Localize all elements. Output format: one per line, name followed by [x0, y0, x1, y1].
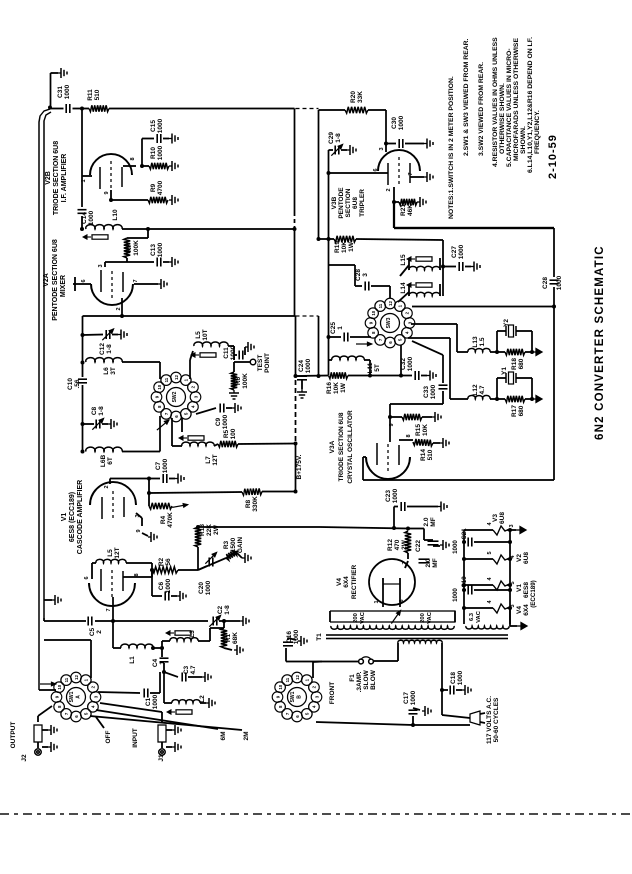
svg-text:V2A: V2A: [43, 273, 50, 287]
svg-text:L5: L5: [107, 549, 114, 557]
svg-text:50-60 CYCLES: 50-60 CYCLES: [493, 697, 500, 742]
svg-text:V2: V2: [516, 554, 523, 562]
svg-text:C21: C21: [461, 528, 468, 540]
svg-text:R9: R9: [150, 183, 157, 192]
heater V4 6X4: [464, 607, 493, 609]
svg-text:V4: V4: [516, 606, 523, 614]
svg-text:C15: C15: [150, 120, 157, 132]
wire SW3 to right bus: [412, 306, 554, 308]
wire C2 line: [113, 620, 208, 622]
svg-text:RECTIFIER: RECTIFIER: [351, 565, 358, 600]
svg-text:C10: C10: [67, 378, 74, 390]
svg-text:8: 8: [406, 434, 412, 437]
svg-text:C3: C3: [183, 665, 190, 674]
capacitor C8 1-8 variable: [83, 423, 95, 425]
svg-text:100K: 100K: [133, 240, 140, 256]
svg-text:V3: V3: [492, 514, 499, 522]
capacitor C24 1000: [297, 375, 307, 377]
svg-text:1000: 1000: [392, 488, 399, 503]
wire switch feed upper: [44, 639, 91, 641]
wire to 2M: [90, 716, 242, 730]
wire (left bus outer): [39, 109, 50, 690]
resistor R1 68K: [221, 628, 227, 648]
wire L6 to SW2: [122, 361, 160, 363]
tube V2A mixer: [91, 284, 133, 305]
wire to pin 3: [385, 110, 387, 144]
svg-text:680: 680: [518, 405, 525, 416]
coil L7 12T with slug: [182, 442, 214, 446]
coil L14 with slug: [408, 284, 410, 296]
wire SW2 to L7: [171, 418, 173, 440]
heater V1 6ES8: [464, 584, 493, 586]
svg-text:2W: 2W: [213, 524, 220, 535]
svg-text:10: 10: [57, 684, 62, 689]
svg-text:7: 7: [133, 279, 139, 282]
tube V1 upper half: [90, 482, 136, 505]
ground arrow Y1: [532, 398, 536, 400]
wire left bus to switch: [39, 689, 56, 691]
capacitor C4 1: [161, 648, 163, 657]
svg-text:10T: 10T: [202, 329, 209, 340]
resistor R7 100K: [147, 229, 149, 238]
svg-text:1: 1: [159, 661, 166, 665]
capacitor C23 1000: [393, 507, 395, 529]
svg-text:OFF: OFF: [105, 730, 112, 743]
wire top bus right segment: [318, 110, 320, 239]
svg-text:510: 510: [427, 449, 434, 460]
svg-text:33K: 33K: [357, 91, 364, 103]
svg-text:1000: 1000: [230, 345, 237, 360]
capacitor C32 1000: [370, 375, 412, 377]
svg-text:R4: R4: [160, 515, 167, 524]
svg-text:3: 3: [362, 273, 369, 277]
svg-text:11: 11: [164, 377, 169, 382]
fuse F1: [369, 659, 374, 664]
svg-text:B+175V.: B+175V.: [296, 454, 303, 479]
svg-text:R19: R19: [334, 241, 341, 253]
svg-text:I.F. AMPLIFIER: I.F. AMPLIFIER: [61, 154, 68, 203]
svg-text:C13: C13: [150, 244, 157, 256]
capacitor C10 .56 series in left line: [82, 363, 84, 378]
svg-text:1000: 1000: [410, 690, 417, 705]
svg-text:4700: 4700: [157, 180, 164, 195]
svg-text:VAC: VAC: [427, 611, 433, 624]
node: [80, 107, 84, 111]
wire oscillator box bottom: [363, 479, 554, 481]
resistor R14 510: [399, 439, 413, 441]
svg-text:R10: R10: [150, 147, 157, 159]
svg-text:1000: 1000: [222, 414, 229, 429]
svg-text:C19: C19: [461, 576, 468, 588]
resistor R20 33K: [345, 107, 368, 113]
rotary switch SW3: [381, 314, 400, 333]
coil L6 3T: [82, 335, 84, 363]
svg-text:1000: 1000: [407, 356, 414, 371]
transformer 6.3VAC winding: [463, 607, 465, 624]
coil L2 with slug: [163, 672, 165, 703]
svg-text:C22: C22: [415, 540, 422, 552]
svg-text:R12: R12: [387, 539, 394, 551]
svg-text:2: 2: [386, 188, 392, 191]
svg-text:R2: R2: [158, 557, 165, 566]
svg-text:10K: 10K: [341, 241, 348, 253]
svg-text:2: 2: [96, 630, 103, 634]
svg-text:1W: 1W: [340, 382, 347, 393]
wire down to L15/C27: [442, 240, 444, 266]
svg-text:C16: C16: [286, 631, 293, 643]
svg-text:100: 100: [230, 428, 237, 439]
capacitor C33 1000 series: [412, 341, 443, 355]
svg-text:1000: 1000: [458, 244, 465, 259]
svg-text:SLOW: SLOW: [363, 669, 370, 689]
rotary switch SW1B: [288, 688, 307, 707]
chassis dashed line: [0, 813, 632, 815]
heater V2 6U8: [464, 558, 493, 560]
svg-text:R3: R3: [223, 540, 230, 549]
svg-text:C33: C33: [423, 386, 430, 398]
wire pin 6: [327, 171, 331, 175]
svg-text:10: 10: [157, 384, 162, 389]
wire pin 6: [73, 283, 91, 285]
svg-text:J2: J2: [21, 754, 28, 762]
ground arrow 6.3 winding: [510, 625, 517, 627]
svg-text:22K: 22K: [206, 524, 213, 536]
ground (antenna shield): [51, 72, 59, 74]
capacitor C2 1-8 variable: [212, 617, 214, 626]
transformer HV winding bumps: [331, 626, 454, 629]
svg-text:6T: 6T: [107, 457, 114, 465]
svg-text:C14: C14: [81, 212, 88, 224]
svg-text:L10: L10: [112, 209, 119, 221]
svg-text:5T: 5T: [374, 364, 381, 372]
capacitor C9 1000: [196, 408, 216, 414]
svg-text:1000: 1000: [293, 629, 300, 644]
svg-text:12: 12: [388, 301, 393, 306]
svg-text:56: 56: [165, 558, 172, 566]
svg-text:R7: R7: [126, 243, 133, 252]
test point terminal: [234, 361, 250, 363]
svg-text:C12: C12: [99, 343, 106, 355]
crystal Y2: [496, 331, 498, 352]
svg-text:6: 6: [84, 576, 90, 579]
svg-text:12T: 12T: [114, 547, 121, 558]
svg-text:C8: C8: [91, 406, 98, 415]
capacitor C11 1000: [234, 354, 237, 356]
svg-text:C17: C17: [403, 692, 410, 704]
svg-text:1.5: 1.5: [479, 337, 486, 346]
resistor R4 470K with arrow: [148, 493, 150, 506]
svg-text:5.CAPACITANCE VALUES IN MICRO-: 5.CAPACITANCE VALUES IN MICRO-: [506, 48, 513, 167]
wire pin 8 to R2 node: [123, 576, 152, 578]
svg-text:L6: L6: [103, 367, 110, 375]
capacitor C17 1000: [412, 716, 414, 725]
wire thick output line: [393, 202, 395, 228]
svg-text:R16: R16: [326, 382, 333, 394]
svg-text:2.SW1 & SW3 VIEWED FROM REAR.: 2.SW1 & SW3 VIEWED FROM REAR.: [463, 38, 470, 156]
svg-text:1000: 1000: [305, 358, 312, 373]
transformer core lines: [326, 634, 508, 636]
node: [80, 227, 84, 231]
wire to plug: [441, 690, 443, 715]
heater V3 6U8: [464, 529, 493, 531]
ground arrow Y2: [532, 351, 536, 353]
svg-text:L11: L11: [367, 362, 374, 373]
svg-text:C24: C24: [298, 360, 305, 372]
svg-text:L6B: L6B: [100, 455, 107, 468]
wire SW3 to Y2 section: [411, 323, 457, 325]
wire: [82, 424, 84, 452]
resistor R2 56: [151, 563, 153, 570]
capacitor C28 1000 series: [550, 279, 559, 281]
heater rail right: [509, 530, 511, 626]
svg-text:.3AMP.: .3AMP.: [356, 671, 363, 692]
svg-text:GAIN: GAIN: [237, 537, 244, 554]
svg-text:10: 10: [278, 684, 283, 689]
svg-text:1000: 1000: [398, 115, 405, 130]
svg-text:200: 200: [420, 613, 426, 623]
svg-text:L14: L14: [400, 282, 407, 294]
svg-text:5: 5: [487, 551, 493, 554]
wire SW3 to Y1 section: [408, 337, 450, 339]
svg-text:L13: L13: [472, 336, 479, 348]
svg-text:3: 3: [379, 147, 385, 150]
svg-text:SW1: SW1: [69, 691, 75, 702]
svg-text:Y2: Y2: [503, 319, 510, 327]
resistor R13 22K 2W: [195, 527, 201, 547]
svg-text:R17: R17: [511, 405, 518, 417]
capacitor C13 1000: [156, 258, 158, 267]
svg-text:1000: 1000: [152, 694, 159, 709]
svg-text:V4: V4: [336, 578, 343, 586]
resistor R12 470 2W: [405, 531, 411, 553]
wire pin 2 to bus: [121, 298, 123, 316]
svg-text:L5: L5: [195, 331, 202, 339]
svg-text:CASCODE AMPLIFIER: CASCODE AMPLIFIER: [77, 480, 84, 554]
wire to grid pin 9: [390, 403, 443, 405]
svg-text:TRIPLER: TRIPLER: [359, 189, 366, 217]
svg-text:L2: L2: [199, 695, 206, 703]
svg-text:6: 6: [373, 168, 379, 171]
svg-text:L1: L1: [129, 656, 136, 664]
svg-text:R1: R1: [225, 633, 232, 642]
transformer T1 HV secondary box: [330, 611, 455, 622]
svg-text:6M: 6M: [220, 731, 227, 740]
svg-text:1000: 1000: [430, 384, 437, 399]
svg-text:46K: 46K: [407, 204, 414, 216]
wire right bus: [553, 228, 555, 277]
svg-text:100K: 100K: [242, 373, 249, 389]
svg-text:R21: R21: [400, 204, 407, 216]
svg-text:R14: R14: [420, 449, 427, 461]
capacitor C7 1000: [147, 477, 151, 481]
svg-text:MF: MF: [432, 558, 439, 567]
svg-text:1: 1: [337, 326, 344, 330]
coil L6B 6T: [86, 447, 122, 451]
svg-text:FRONT: FRONT: [329, 682, 336, 704]
svg-text:TRIODE SECTION 6U8: TRIODE SECTION 6U8: [338, 412, 345, 481]
svg-text:68K: 68K: [232, 632, 239, 644]
wire pins 1 and 6: [382, 590, 384, 607]
svg-text:10K: 10K: [333, 382, 340, 394]
svg-text:6.3: 6.3: [469, 612, 475, 621]
resistor R15 10K: [390, 416, 402, 418]
wire vertical (to C24): [295, 316, 297, 376]
svg-text:200: 200: [353, 613, 359, 623]
svg-text:6X4: 6X4: [523, 604, 530, 616]
ground arrow heater top: [510, 529, 516, 531]
svg-text:C31: C31: [57, 86, 64, 98]
coil L10: [86, 225, 122, 229]
svg-text:FREQUENCY.: FREQUENCY.: [534, 110, 541, 154]
svg-text:C29: C29: [328, 132, 335, 144]
svg-text:12T: 12T: [212, 454, 219, 465]
jack J2 OUTPUT: [37, 716, 39, 722]
svg-text:1000: 1000: [162, 458, 169, 473]
svg-text:6U8: 6U8: [499, 512, 506, 524]
svg-text:330K: 330K: [252, 496, 259, 512]
svg-text:C5: C5: [89, 627, 96, 636]
svg-text:9: 9: [389, 423, 395, 426]
capacitor C3 4.7: [164, 672, 178, 677]
svg-text:MICROFARADS UNLESS OTHERWISE: MICROFARADS UNLESS OTHERWISE: [513, 38, 520, 161]
svg-text:BLOW: BLOW: [370, 669, 377, 690]
svg-text:R18: R18: [511, 358, 518, 370]
svg-text:1: 1: [374, 600, 380, 603]
svg-text:L7: L7: [205, 456, 212, 464]
wire SW3 pin down: [400, 345, 402, 376]
wire plate pin 8: [123, 165, 136, 167]
svg-text:6U8: 6U8: [352, 197, 359, 209]
svg-text:1-8: 1-8: [106, 344, 113, 354]
svg-text:8: 8: [134, 573, 140, 576]
tube V2B: [90, 154, 132, 175]
svg-text:2.0: 2.0: [423, 517, 430, 526]
svg-text:B: B: [297, 695, 303, 699]
wire cathode pin 9: [110, 190, 112, 200]
wire: [50, 73, 52, 107]
svg-text:VAC: VAC: [360, 611, 366, 624]
wire pin 2 down: [393, 187, 395, 202]
tube V3B: [378, 150, 420, 171]
svg-text:1000: 1000: [157, 145, 164, 160]
wire L6B to SW2: [122, 451, 160, 453]
coil L5 10T with slug: [189, 360, 191, 379]
svg-text:2W: 2W: [401, 539, 408, 550]
wire B+ vertical: [295, 444, 297, 492]
svg-text:(ECC189): (ECC189): [530, 580, 537, 608]
svg-text:3: 3: [98, 264, 104, 267]
resistor R10 1000: [142, 165, 149, 167]
svg-text:12: 12: [174, 375, 179, 380]
wire R19 line: [317, 237, 321, 241]
resistor R9 4700: [111, 199, 148, 201]
rectifier plates inside: [382, 578, 384, 590]
svg-text:R15: R15: [415, 424, 422, 436]
svg-text:J1: J1: [158, 754, 165, 762]
capacitor C14 1000: [81, 176, 83, 207]
svg-text:4.7: 4.7: [479, 385, 486, 394]
capacitor C19 1000 rung: [464, 589, 466, 591]
svg-text:2: 2: [104, 485, 110, 488]
svg-text:L3: L3: [189, 630, 196, 638]
svg-text:PENTODE: PENTODE: [338, 187, 345, 219]
svg-text:11: 11: [64, 677, 69, 682]
heater rail left: [463, 530, 465, 607]
wire pin 7 ground: [410, 176, 424, 178]
svg-text:12: 12: [295, 675, 300, 680]
svg-text:4.7: 4.7: [190, 665, 197, 674]
capacitor C27 1000: [443, 266, 456, 268]
svg-text:3.SW2 VIEWED FROM REAR.: 3.SW2 VIEWED FROM REAR.: [478, 62, 485, 156]
wire mixer grid pin 3: [105, 261, 127, 263]
svg-text:POINT: POINT: [264, 353, 271, 373]
capacitor C18 1000: [442, 689, 448, 691]
wire plug to switch SW1B: [413, 724, 470, 726]
svg-text:9: 9: [136, 529, 142, 532]
svg-text:C1: C1: [145, 697, 152, 706]
wire C29 feed line down: [328, 150, 330, 375]
svg-text:OTHERWISE SHOWN.: OTHERWISE SHOWN.: [499, 83, 506, 154]
svg-text:OUTPUT: OUTPUT: [10, 722, 17, 749]
svg-text:L15: L15: [400, 254, 407, 266]
svg-text:2-10-59: 2-10-59: [547, 134, 559, 179]
svg-text:C7: C7: [155, 461, 162, 470]
svg-text:117 VOLTS A.C.: 117 VOLTS A.C.: [486, 696, 493, 744]
svg-text:10: 10: [371, 310, 376, 315]
coil L4 12T (cascode): [96, 559, 126, 563]
capacitor C25 1 series: [329, 336, 342, 338]
rotary switch SW2: [167, 388, 186, 407]
svg-text:6ES8 (ECC189): 6ES8 (ECC189): [69, 492, 76, 542]
svg-text:V3A: V3A: [329, 440, 336, 453]
wire primary right down: [441, 649, 443, 690]
capacitor C29 1-8 variable: [329, 149, 334, 151]
capacitor C30 1000: [386, 143, 396, 145]
capacitor C6 1000: [151, 570, 153, 596]
capacitor C21 1000 rung: [464, 541, 466, 543]
svg-text:1500: 1500: [230, 537, 237, 552]
svg-text:1000: 1000: [165, 578, 172, 593]
svg-text:6ES8: 6ES8: [523, 582, 530, 598]
resistor R16 10K 1W: [329, 372, 349, 378]
svg-text:9: 9: [104, 191, 110, 194]
tube V3A: [366, 457, 410, 479]
tube V1 lower half: [89, 583, 135, 606]
svg-text:680: 680: [518, 358, 525, 369]
svg-text:SW2: SW2: [172, 391, 178, 402]
svg-text:SECTION: SECTION: [345, 188, 352, 217]
svg-text:1000: 1000: [64, 84, 71, 99]
wire pin 7 cathode down: [112, 597, 114, 621]
svg-text:V3B: V3B: [331, 196, 338, 209]
wire vertical (IF line down): [294, 109, 296, 213]
svg-text:NOTES:1.SWITCH IS IN 2 METER P: NOTES:1.SWITCH IS IN 2 METER POSITION.: [448, 76, 455, 219]
svg-text:MIXER: MIXER: [60, 275, 67, 297]
svg-text:CRYSTAL OSCILLATOR: CRYSTAL OSCILLATOR: [347, 410, 354, 484]
wire to OFF: [96, 717, 104, 728]
svg-text:C25: C25: [330, 322, 337, 334]
svg-text:C30: C30: [391, 117, 398, 129]
wire (left bus inner): [44, 112, 51, 618]
svg-text:3: 3: [135, 514, 141, 517]
svg-text:2.0: 2.0: [425, 558, 432, 567]
svg-text:3: 3: [509, 524, 515, 527]
svg-text:TEST: TEST: [257, 355, 264, 372]
wire C24 line: [296, 375, 329, 378]
wire: [122, 228, 295, 230]
svg-text:7: 7: [408, 172, 414, 175]
capacitor C16 1000: [286, 661, 322, 663]
